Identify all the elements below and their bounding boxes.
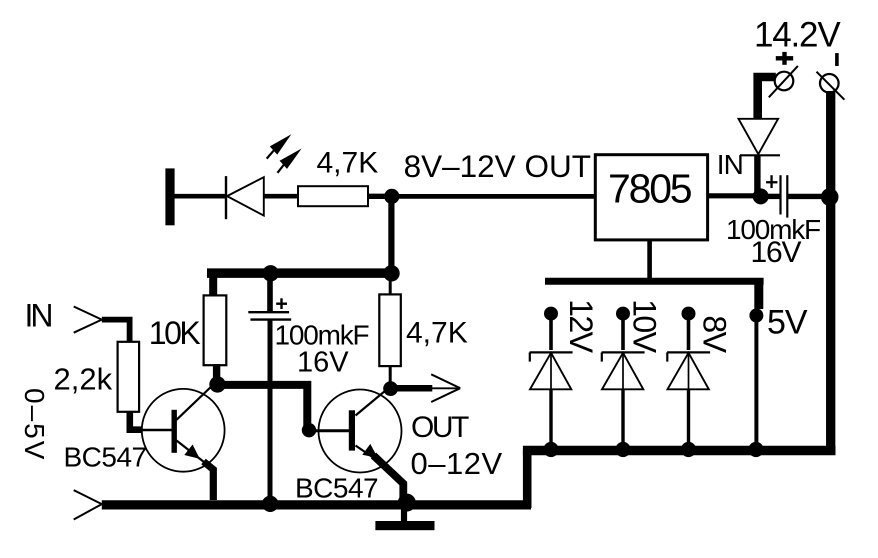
node J (C1 to rail)	[262, 496, 278, 512]
node K (zener1 to rail)	[543, 442, 558, 457]
wire 2,2k to Q1 base	[130, 411, 142, 430]
label 4,7K (R1)	[317, 147, 379, 180]
label 100mkF (C2)	[726, 214, 820, 245]
svg-text:IN: IN	[717, 149, 743, 180]
label 0-12V	[411, 446, 503, 481]
wire Q1 emitter to rail	[204, 462, 214, 501]
label 5V	[767, 304, 808, 342]
node D (cap tap)	[262, 265, 278, 281]
svg-text:8V–12V OUT: 8V–12V OUT	[404, 148, 591, 184]
zener D5	[667, 319, 710, 447]
node B (IN junction)	[753, 188, 769, 204]
svg-text:IN: IN	[25, 298, 52, 334]
capacitor C1	[248, 273, 291, 500]
label 16V (C1)	[297, 347, 349, 379]
wire 7805 to node B	[708, 193, 756, 198]
node N (5V to rail)	[748, 442, 763, 457]
input arrow	[74, 307, 102, 333]
wire node G to Q2 base	[311, 429, 349, 432]
bus wire upper left	[207, 268, 392, 278]
wire battery + to diode D1	[758, 77, 776, 119]
zener bus	[545, 278, 764, 285]
wire D1 to node B	[754, 156, 760, 197]
wire Q2 emitter to ground node	[374, 456, 404, 500]
bottom rail	[102, 500, 531, 509]
svg-text:10K: 10K	[149, 315, 201, 351]
node H (Q2 collector junction)	[383, 381, 398, 396]
svg-text:16V: 16V	[297, 347, 349, 379]
svg-text:12V: 12V	[563, 299, 599, 354]
svg-text:10V: 10V	[627, 299, 663, 354]
zener rail	[523, 446, 836, 456]
node F (Q1 collector junction)	[209, 376, 225, 392]
label 16V (C2)	[751, 236, 802, 269]
terminal + (battery positive)	[769, 66, 798, 97]
node zener1 top	[544, 307, 558, 321]
node M (zener3 to rail)	[681, 442, 696, 457]
label 8V-12V OUT	[404, 148, 591, 184]
label IN	[717, 149, 743, 180]
node 5V tap	[749, 309, 763, 323]
label 8V (rotated)	[696, 315, 732, 353]
svg-text:16V: 16V	[751, 236, 802, 269]
svg-text:4,7K: 4,7K	[406, 317, 468, 350]
svg-text:8V: 8V	[696, 315, 732, 353]
node zener2 top	[616, 307, 630, 321]
terminal - (battery negative)	[817, 72, 845, 100]
wire battery - down right side	[826, 91, 835, 451]
svg-text:14.2V: 14.2V	[754, 16, 841, 55]
svg-text:0–5V: 0–5V	[19, 388, 50, 461]
resistor R3 4,7K	[379, 294, 401, 366]
wire node A to 7805	[392, 194, 596, 199]
resistor R4 2,2k	[118, 342, 140, 412]
wire LED to R1	[264, 194, 299, 199]
bottom left arrow	[74, 490, 102, 519]
svg-text:5V: 5V	[767, 304, 808, 342]
resistor R2 10K	[204, 295, 227, 365]
label 0-5V (rotated)	[19, 388, 50, 461]
wire 5V stub	[754, 278, 763, 309]
node A	[384, 189, 399, 204]
node C (cap junction on right line)	[821, 188, 839, 206]
zener D3	[530, 319, 573, 447]
label 4,7K (R3)	[406, 317, 468, 350]
wire terminal to LED	[174, 194, 227, 199]
svg-text:BC547: BC547	[295, 473, 378, 504]
svg-text:0–12V: 0–12V	[411, 446, 503, 481]
transistor Q1	[139, 384, 225, 472]
svg-text:7805: 7805	[608, 166, 692, 212]
node I (ground junction)	[398, 494, 416, 512]
wire node A down to bus	[388, 196, 394, 273]
wire 10K to node F	[213, 364, 220, 379]
node L (zener2 to rail)	[615, 442, 630, 457]
label 10V (rotated)	[627, 299, 663, 354]
node E (bus right)	[383, 265, 399, 281]
svg-text:4,7K: 4,7K	[317, 147, 379, 180]
wire 5V down to rail	[754, 320, 758, 447]
wire R1 to node A	[368, 194, 392, 199]
regulator U1 7805	[595, 155, 707, 240]
wire step up to zener rail	[523, 451, 532, 508]
label +	[776, 52, 793, 65]
svg-text:2,2k: 2,2k	[54, 362, 113, 397]
resistor R1	[298, 186, 368, 206]
wire R3 bottom stem	[389, 366, 392, 383]
wire output	[395, 385, 460, 392]
label BC547 (Q2)	[295, 473, 378, 504]
wire R3 top stem	[389, 280, 392, 295]
label 2,2k	[54, 362, 113, 397]
output arrow	[431, 374, 460, 402]
node zener3 top	[682, 307, 696, 321]
label IN (left input)	[25, 298, 52, 334]
svg-text:BC547: BC547	[64, 442, 147, 473]
wire bus to 10K	[209, 273, 217, 296]
diode D1	[739, 119, 781, 156]
wire node F to Q2 base (collector bus)	[219, 385, 307, 426]
wire 7805 to zener bus	[647, 240, 652, 281]
node G (Q2 base junction)	[302, 423, 316, 437]
transistor Q2	[313, 389, 402, 473]
terminal bar (LED cathode terminal)	[165, 168, 174, 225]
LED arrows	[267, 134, 302, 173]
label 14.2V	[754, 16, 841, 55]
svg-text:OUT: OUT	[411, 411, 469, 444]
wire input to 2,2k	[102, 320, 130, 343]
label I (negative mark)	[835, 53, 839, 66]
ground	[375, 506, 434, 530]
label BC547 (Q1)	[64, 442, 147, 473]
label OUT	[411, 411, 469, 444]
label 10K	[149, 315, 201, 351]
LED D2	[226, 176, 264, 219]
capacitor C2	[766, 175, 827, 217]
label 100mkF (C1)	[275, 319, 369, 350]
label 12V (rotated)	[563, 299, 599, 354]
zener D4	[602, 319, 645, 447]
